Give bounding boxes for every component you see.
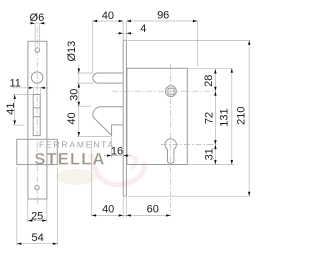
11 arrows bbox=[29, 87, 34, 89]
wide block bbox=[17, 139, 58, 164]
dim 131 line bbox=[231, 68, 233, 164]
dim 54 ext lines bbox=[16, 167, 18, 246]
left view dimension lines bbox=[12, 23, 58, 246]
hub square bbox=[168, 88, 174, 94]
faceplate back line bbox=[125, 40, 127, 196]
41 arrows bbox=[14, 95, 16, 100]
dim 41 line bbox=[14, 95, 16, 125]
svg-text:41: 41 bbox=[5, 102, 17, 114]
case bottom ext line bbox=[188, 164, 234, 166]
svg-text:96: 96 bbox=[157, 9, 169, 21]
hole D13 bbox=[31, 72, 42, 83]
euro horizontal centerline bbox=[161, 144, 216, 146]
bottom hole bbox=[35, 186, 39, 190]
svg-text:FERRAMENTA: FERRAMENTA bbox=[39, 140, 115, 150]
faceplate top cap bbox=[123, 39, 126, 41]
bottom 40/60 arrows bbox=[92, 214, 97, 216]
dim 16 left ext (beak tip) bbox=[111, 138, 113, 158]
hub horizontal centerline bbox=[112, 90, 215, 92]
plate outline bbox=[28, 41, 47, 199]
dim 40 ext bbox=[92, 21, 94, 73]
131 arrows bbox=[231, 68, 233, 73]
faceplate bottom ext lines bbox=[122, 197, 124, 218]
svg-text:40: 40 bbox=[66, 112, 78, 124]
svg-text:4: 4 bbox=[140, 23, 146, 35]
watermark red swoosh bbox=[91, 154, 145, 185]
svg-text:54: 54 bbox=[31, 232, 43, 244]
D6 arrows bbox=[31, 22, 35, 24]
right view dimension lines bbox=[77, 20, 250, 218]
40 top arrows bbox=[93, 20, 98, 22]
chain dim line 28/72/31 bbox=[214, 69, 216, 165]
faceplate top ext to 210 bbox=[127, 39, 250, 41]
54 arrows bbox=[17, 243, 22, 245]
hook beak bbox=[93, 107, 123, 136]
hub circle bbox=[166, 86, 177, 97]
svg-text:16: 16 bbox=[111, 146, 123, 158]
follower block line 1 bbox=[33, 107, 40, 109]
dim D6 ext lines bbox=[34, 24, 36, 47]
dim 41 ext top bbox=[13, 93, 33, 95]
chain arrows bbox=[214, 69, 216, 74]
faceplate front line bbox=[122, 40, 124, 196]
case vertical centerline bbox=[170, 64, 172, 216]
faceplate top ext lines bbox=[122, 22, 124, 40]
faceplate bottom ext to 210 bbox=[128, 195, 250, 197]
dim D6 line bbox=[29, 22, 47, 24]
svg-text:72: 72 bbox=[204, 112, 216, 124]
faceplate bottom cap bbox=[123, 195, 126, 197]
case box bbox=[127, 68, 187, 164]
dim 16 line bbox=[104, 155, 131, 157]
dim 96 line bbox=[126, 20, 197, 22]
dim 25 line bbox=[28, 220, 47, 222]
watermark glow bbox=[56, 169, 96, 185]
svg-text:30: 30 bbox=[69, 89, 81, 101]
ext line bolt bottom bbox=[77, 82, 94, 84]
svg-text:Ø6: Ø6 bbox=[30, 12, 45, 24]
96 arrows bbox=[126, 20, 130, 22]
left view arrowheads bbox=[14, 22, 58, 245]
svg-text:210: 210 bbox=[235, 107, 247, 125]
210 arrows bbox=[248, 40, 250, 45]
follower block line 2 bbox=[33, 116, 40, 118]
ext line bolt top bbox=[77, 72, 94, 74]
chain dim line D13/30/40 bbox=[78, 65, 80, 137]
dim 54 line bbox=[17, 243, 58, 245]
svg-text:31: 31 bbox=[203, 148, 215, 160]
hole D6 bbox=[35, 48, 40, 53]
dim 41 ext bottom bbox=[13, 124, 24, 126]
dim 4 line bbox=[116, 32, 134, 34]
svg-text:60: 60 bbox=[147, 204, 159, 216]
svg-text:11: 11 bbox=[9, 77, 20, 89]
dim 25 ext lines bbox=[27, 200, 29, 223]
svg-text:25: 25 bbox=[31, 210, 43, 222]
ext line beak top bbox=[77, 105, 91, 107]
ext line beak tip bbox=[77, 136, 112, 138]
left centerline bbox=[36, 27, 38, 204]
dim 11 line bbox=[12, 87, 49, 89]
round bolt (D13 pin) bbox=[93, 73, 123, 83]
right view arrowheads bbox=[78, 20, 251, 217]
16 arrows (outside) bbox=[107, 154, 112, 156]
bottom left ext bbox=[91, 140, 93, 217]
dim 210 line bbox=[248, 40, 250, 196]
slot bbox=[33, 95, 40, 136]
dim 96 right ext bbox=[196, 20, 198, 67]
svg-text:Ø13: Ø13 bbox=[66, 41, 78, 62]
case top ext line bbox=[188, 67, 233, 69]
svg-text:28: 28 bbox=[203, 75, 215, 87]
4 arrows (outside) bbox=[119, 32, 124, 34]
dim 11 ext lines bbox=[32, 88, 34, 94]
dim 40 top line bbox=[93, 20, 124, 22]
25 arrows bbox=[28, 219, 33, 221]
svg-text:131: 131 bbox=[219, 108, 231, 126]
chain D13/30/40 arrows bbox=[78, 69, 80, 74]
euro cylinder profile bbox=[165, 139, 176, 163]
svg-text:40: 40 bbox=[102, 10, 114, 22]
bottom dim line 40/60 bbox=[92, 214, 171, 216]
svg-text:40: 40 bbox=[102, 204, 114, 216]
